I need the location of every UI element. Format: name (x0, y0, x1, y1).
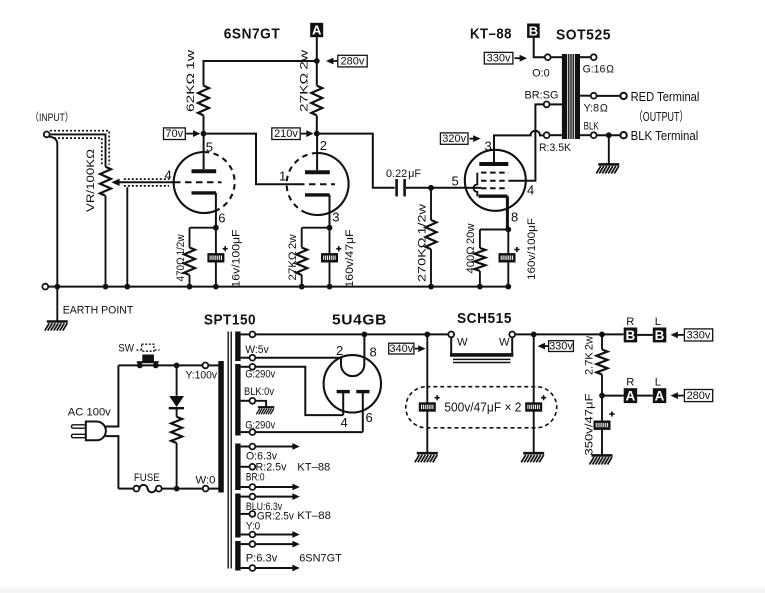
transformer T1 secondary bar heater2 (235, 494, 240, 538)
tube V2 KT-88 envelope (465, 150, 526, 211)
svg-text:KT–88: KT–88 (297, 462, 330, 474)
svg-text:A: A (655, 389, 665, 404)
wire top B+ rail right part (515, 333, 624, 335)
wire diode to resistor (176, 408, 178, 417)
node filter cap1 junction (424, 332, 430, 338)
tube V3 plate left (337, 392, 350, 416)
svg-text:KT–88: KT–88 (297, 510, 331, 522)
wire 270K to bus (430, 249, 432, 286)
wire R:3.5K to primary (550, 134, 563, 136)
tube V1a 6SN7 envelope solid left arc (174, 152, 216, 213)
tube V2 plate (479, 162, 508, 166)
ground BLK (596, 164, 619, 173)
svg-text:62KΩ 1w: 62KΩ 1w (185, 49, 197, 112)
input terminal (44, 132, 50, 138)
tube V1b plate (305, 170, 330, 174)
resistor bleeder (171, 417, 182, 443)
wire to 350v cap (601, 396, 603, 455)
svg-text:L: L (655, 377, 661, 389)
svg-text:4: 4 (341, 415, 348, 430)
svg-text:Y:0: Y:0 (246, 520, 260, 532)
wire input shield dotted inner (54, 138, 102, 165)
wire 27Kc to bus (301, 275, 303, 287)
svg-text:320v: 320v (442, 133, 466, 145)
terminal G:16 (591, 54, 597, 60)
wiper shield dotted top (124, 178, 169, 180)
choke L1 terminal W right (509, 332, 515, 338)
wire between B tags (637, 334, 653, 336)
node filter cap2 junction (531, 332, 537, 338)
svg-text:W:0: W:0 (196, 475, 216, 487)
svg-text:Y:100v: Y:100v (186, 370, 218, 382)
label 280v with arrow (326, 55, 367, 67)
transformer T1 secondary bar W5v (235, 332, 240, 362)
footer band (0, 588, 765, 593)
svg-text:A: A (312, 23, 322, 38)
svg-text:VR/100KΩ: VR/100KΩ (85, 149, 97, 212)
svg-text:2.7K 2w: 2.7K 2w (584, 335, 596, 375)
svg-text:0.22 μF: 0.22 μF (386, 168, 421, 180)
svg-text:L: L (655, 316, 661, 328)
capacitor filter C4 (419, 402, 436, 411)
AC plug body (86, 422, 106, 441)
svg-text:P:6.3v: P:6.3v (246, 553, 278, 565)
choke L1 terminal W left (448, 332, 454, 338)
wire bottom to fuse (118, 488, 133, 490)
svg-text:W: W (499, 337, 510, 349)
svg-text:160v/47μF: 160v/47μF (344, 229, 356, 287)
tap G:290v top (241, 366, 250, 368)
wire O:0 to primary (551, 56, 562, 58)
node 210v junction (314, 131, 320, 137)
svg-text:470Ω 1/2w: 470Ω 1/2w (175, 234, 187, 282)
transformer T1 secondary bar heater1 (235, 444, 240, 491)
svg-text:6SN7GT: 6SN7GT (224, 26, 281, 43)
node V1a cathode junction (213, 225, 219, 231)
wire A rail to A tag (602, 395, 624, 397)
wire filter cap1 branch (426, 334, 428, 452)
svg-text:2: 2 (320, 138, 327, 153)
tube V1a grid dashed (174, 181, 222, 183)
capacitor 0.22uF coupling (397, 179, 405, 196)
ground filter C4 (415, 453, 438, 462)
svg-text:5: 5 (452, 174, 459, 189)
wiper shield dotted bottom (124, 185, 169, 187)
svg-text:280v: 280v (341, 55, 365, 67)
wire between A tags (637, 395, 653, 397)
svg-text:5: 5 (206, 140, 213, 155)
svg-text:G:290v: G:290v (245, 368, 275, 380)
tube V3 5U4GB envelope (324, 355, 381, 412)
resistor 62KOhm 1w (198, 86, 209, 116)
wire V2 screen lead to BR:SG (509, 104, 544, 180)
wire Y:8 to RED terminal (597, 95, 621, 97)
switch indicator dashed box (136, 344, 159, 351)
svg-text:B: B (626, 328, 636, 343)
tap G:290v bottom (241, 431, 250, 433)
tube V2 cathode (479, 194, 508, 197)
wire cathode junction left (190, 227, 216, 229)
svg-text:G:16 Ω: G:16 Ω (583, 63, 614, 75)
transformer T1 core lines (228, 332, 231, 569)
capacitor 160v/47uF (321, 253, 338, 262)
tap BLK:0v (241, 400, 250, 402)
svg-text:BLK: BLK (584, 120, 600, 132)
wire V1b cathode lead (329, 195, 331, 228)
wire input center conductor to VR top (50, 134, 106, 166)
tube V1a plate (192, 169, 217, 173)
node A tag L (653, 388, 667, 403)
wire to cap C1 (215, 228, 217, 287)
tube V1a cathode (192, 191, 217, 194)
wire G290 bottom to pin6 (255, 431, 362, 433)
wire cathode junction left c (480, 229, 508, 231)
wire to 270K (430, 188, 432, 220)
node 280v junction (314, 58, 320, 64)
svg-text:AC 100v: AC 100v (68, 407, 111, 419)
svg-text:16v/100μF: 16v/100μF (231, 229, 243, 287)
node BLK ground junction (606, 132, 612, 138)
svg-text:（INPUT）: （INPUT） (30, 111, 73, 124)
svg-text:R: R (626, 316, 634, 328)
svg-text:KT–88: KT–88 (470, 26, 512, 43)
svg-text:FUSE: FUSE (134, 472, 160, 484)
svg-text:4: 4 (527, 183, 534, 198)
resistor 2.7K 2w (597, 350, 608, 375)
svg-text:2: 2 (336, 343, 343, 358)
svg-text:A: A (626, 389, 636, 404)
svg-text:BR:0: BR:0 (246, 472, 265, 484)
ground earth point (45, 322, 68, 331)
svg-text:GR:2.5v: GR:2.5v (257, 511, 294, 523)
wire Y:8 to secondary (580, 95, 591, 97)
svg-text:3: 3 (332, 210, 339, 225)
svg-text:SW: SW (118, 343, 134, 355)
wire G:16 to secondary (580, 56, 591, 58)
svg-text:RED Terminal: RED Terminal (631, 90, 700, 104)
label 330v with left arrow (choke out) (538, 340, 574, 352)
wire 280v rail to 62K (204, 61, 317, 86)
wire to 2.7K (601, 334, 603, 349)
wire V1b grid lead from stage1 (204, 134, 299, 185)
svg-text:B: B (529, 23, 538, 38)
svg-text:340v: 340v (389, 343, 413, 355)
wire V2 plate lead to R:3.5K (494, 131, 544, 164)
svg-text:4: 4 (165, 168, 172, 183)
svg-text:G:290v: G:290v (245, 419, 275, 431)
svg-text:400Ω 20w: 400Ω 20w (465, 223, 477, 274)
terminal BLK secondary (591, 132, 597, 138)
wire earth drop (56, 287, 58, 321)
tap BLU:6.3v with arrow (241, 496, 250, 498)
node A tag R (624, 388, 638, 403)
svg-text:350v/47μF: 350v/47μF (584, 393, 596, 455)
svg-text:SPT150: SPT150 (204, 312, 256, 329)
wire to 27K cathode resistor (301, 228, 303, 248)
wire BLK:0v to ground (255, 401, 266, 407)
svg-text:330v: 330v (487, 53, 511, 65)
tap W:5v top (241, 333, 250, 335)
svg-text:1: 1 (279, 169, 286, 184)
svg-text:BLK:0v: BLK:0v (244, 386, 274, 398)
tap R:2.5v (241, 466, 250, 468)
tube V2 beam plate connector with hop (474, 173, 478, 197)
diode D1 (169, 396, 184, 408)
transformer T1 secondary bar HV (235, 364, 240, 436)
svg-text:R: R (626, 377, 634, 389)
fuse F1 (134, 486, 140, 492)
tap P:6.3v top with arrow (241, 543, 250, 545)
svg-text:O:0: O:0 (532, 68, 550, 80)
tube V2 grid row top dashed (481, 172, 509, 174)
dashed enclosure 500v/47uF x2 (406, 387, 557, 428)
wire 27Ka to 210v node (316, 115, 318, 133)
svg-text:330v: 330v (549, 340, 573, 352)
wire wiper shield ground drop (126, 187, 128, 286)
AC plug prong top (72, 425, 87, 428)
svg-text:SOT525: SOT525 (556, 27, 611, 44)
wire 62K to 70v node (203, 115, 205, 133)
wire top B+ rail left part (255, 333, 448, 335)
label 210v with arrow (272, 128, 314, 140)
potentiometer VR/100KOhm (100, 167, 111, 196)
wire input shield dotted outer (50, 131, 109, 165)
terminal RED (620, 93, 626, 99)
svg-text:BR:SG: BR:SG (525, 89, 559, 101)
node SW-diode junction (174, 363, 180, 369)
capacitor 16v/100uF (207, 253, 224, 262)
wire 470 to bus (189, 275, 191, 287)
node B tag R (624, 328, 638, 343)
tube V2 grid row bottom dashed (control) (481, 187, 509, 189)
node pin8 junction (362, 332, 368, 338)
wire to cap C3 (507, 230, 509, 287)
wire resistor to fuse line (176, 443, 178, 489)
wire W:0 to primary bar (209, 488, 219, 490)
tap GR:2.5v (241, 513, 250, 515)
node A-rail junction (599, 393, 605, 399)
transformer T2 core lines (569, 54, 573, 139)
node 2.7K top junction (599, 332, 605, 338)
wire SW line (118, 364, 202, 366)
tube V2 grid row mid dashed (screen) (481, 180, 509, 182)
wire VR bottom to bus (105, 196, 107, 287)
node V1b cathode junction (327, 225, 333, 231)
tube V1b envelope dashed left arc (287, 153, 318, 212)
svg-text:330v: 330v (687, 329, 711, 341)
svg-text:8: 8 (511, 210, 518, 225)
tap W:5v bottom (241, 357, 250, 359)
wire to 400 resistor (479, 230, 481, 249)
transformer T2 secondary bar (575, 54, 580, 139)
transformer T1 secondary bar heater3 (235, 541, 240, 571)
VR wiper arrow wire to grid pin4 (111, 179, 173, 186)
tap P:6.3v bottom with arrow (241, 567, 250, 569)
svg-text:27KΩ 2w: 27KΩ 2w (299, 49, 311, 112)
wire plug top lead (105, 365, 118, 426)
wire V2 cathode lead (506, 196, 509, 229)
node fuse-diode junction (174, 486, 180, 492)
resistor 400Ohm 20w (474, 248, 485, 271)
wire A to 280v node (316, 37, 318, 61)
wire 2.7K to A node (601, 375, 603, 396)
tube V3 plate right (356, 392, 369, 433)
resistor 270KOhm 1/2w (426, 220, 437, 249)
transformer T1 primary bar (218, 361, 224, 493)
label 320v with arrow (440, 133, 480, 145)
wire BLK to secondary (580, 134, 591, 136)
label 340v with arrow (389, 343, 426, 355)
svg-text:500v/47μF × 2: 500v/47μF × 2 (444, 401, 521, 415)
svg-text:6: 6 (366, 410, 373, 425)
svg-text:EARTH POINT: EARTH POINT (63, 305, 134, 317)
svg-text:6SN7GT: 6SN7GT (299, 553, 342, 565)
capacitor filter C5 (525, 402, 542, 411)
resistor 27KOhm 2w (cathode) (296, 248, 307, 275)
node 70v junction (201, 131, 207, 137)
svg-text:70v: 70v (165, 128, 183, 140)
svg-text:3: 3 (485, 139, 492, 154)
wire to 470 resistor (189, 228, 191, 248)
node B tag (top) (527, 23, 540, 38)
wire Y:100v to primary bar (208, 364, 218, 366)
terminal BLK out (620, 132, 626, 138)
wire fuse to W:0 (162, 488, 203, 490)
tap O:6.3v with arrow (241, 446, 250, 448)
svg-text:280v: 280v (687, 390, 711, 402)
ground 350v cap (590, 455, 613, 464)
wire V1b plate lead (316, 134, 318, 171)
svg-text:R:3.5K: R:3.5K (539, 142, 572, 154)
svg-text:5U4GB: 5U4GB (332, 312, 387, 329)
svg-text:6: 6 (218, 211, 225, 226)
resistor 470Ohm 1/2w (184, 248, 195, 275)
ground bus top section (42, 284, 48, 290)
capacitor 160v/100uF (499, 253, 516, 262)
switch SW button (142, 355, 154, 362)
capacitor 350v/47uF (594, 421, 611, 430)
wire BLK ground drop (608, 135, 610, 164)
svg-text:8: 8 (370, 345, 377, 360)
svg-text:SCH515: SCH515 (457, 310, 512, 327)
terminal O:0 (545, 54, 551, 60)
wire V1a plate lead (203, 134, 205, 170)
tube V1b 6SN7 envelope solid right arc (305, 153, 348, 215)
svg-text:27KΩ 2w: 27KΩ 2w (287, 234, 299, 281)
tube V1a envelope dashed right arc (204, 152, 235, 211)
label 280v with left arrow (A row) (671, 390, 713, 403)
bus junction dots (54, 284, 60, 290)
terminal Y:8 (591, 93, 597, 99)
wire to cap C2 (329, 228, 331, 287)
label 330v with left arrow (B row) (671, 329, 713, 342)
label 70v with arrow (164, 128, 201, 140)
tube V1b grid dashed (298, 183, 335, 185)
ground filter C5 (521, 453, 544, 462)
wire G290 top to pin4 (255, 367, 343, 415)
terminal R:3.5K (544, 132, 550, 138)
wire pin8 drop from top rail (363, 334, 365, 357)
svg-text:W:5v: W:5v (245, 344, 269, 356)
terminal BR:SG (544, 102, 550, 108)
wire BLK to BLK terminal (597, 134, 621, 136)
terminal Y:100v (203, 363, 209, 369)
AC plug prong bottom (72, 434, 87, 437)
svg-text:（OUTPUT）: （OUTPUT） (634, 110, 688, 124)
label 330v with arrow (B supply) (484, 52, 527, 64)
wire input jack ground drop (49, 137, 57, 287)
resistor 27KOhm 2w (plate R2) (311, 86, 322, 116)
switch contact dots (137, 363, 143, 369)
tube V3 filament (341, 357, 364, 376)
wire cap to grid node (406, 187, 466, 189)
svg-text:160v/100μF: 160v/100μF (526, 218, 538, 280)
wire V1a cathode lead (215, 193, 217, 228)
node V2 cathode junction (505, 227, 511, 233)
wire 400 to bus (479, 271, 481, 287)
wire B tag to O:0 (534, 38, 545, 57)
node B tag L (653, 328, 667, 343)
wire 27Ka down (316, 61, 318, 86)
svg-text:B: B (655, 328, 665, 343)
svg-text:W: W (457, 337, 468, 349)
node A tag (top) (310, 23, 323, 38)
choke L1 winding (450, 337, 513, 362)
wire 210v node to coupling cap (317, 134, 395, 188)
terminal W:0 (203, 486, 209, 492)
wire V2 grid lead (466, 187, 481, 189)
svg-text:210v: 210v (274, 128, 298, 140)
wire cathode junction left b (302, 227, 330, 229)
wire plug bottom lead (105, 436, 118, 489)
wire diode branch top (176, 365, 178, 395)
svg-text:BLK Terminal: BLK Terminal (631, 129, 699, 143)
svg-text:270KΩ 1/2w: 270KΩ 1/2w (417, 203, 429, 282)
node grid junction (428, 185, 434, 191)
tube V1b cathode (305, 193, 330, 196)
wire W5v bottom to pin2 (255, 357, 341, 359)
ground BLK:0v (256, 407, 274, 414)
wire filter cap2 branch (533, 334, 535, 452)
svg-text:Y:8 Ω: Y:8 Ω (584, 103, 608, 115)
transformer T2 primary bar (562, 54, 567, 139)
wire BR:SG to primary (550, 103, 563, 105)
